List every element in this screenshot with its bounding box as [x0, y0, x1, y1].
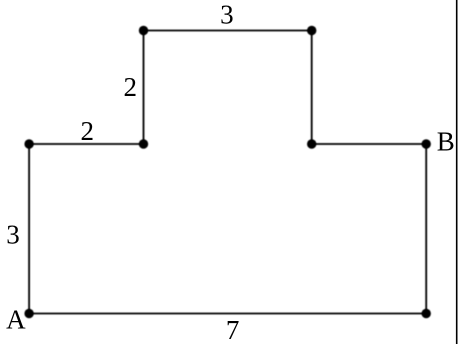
svg-text:B: B	[437, 126, 455, 156]
svg-text:A: A	[6, 305, 26, 335]
side shoulder-left horizontal (length 2)	[29, 143, 143, 145]
side upper-left vertical (length 2)	[143, 31, 145, 145]
svg-text:2: 2	[80, 116, 94, 146]
vertex dot middle-right	[307, 139, 316, 148]
svg-text:7: 7	[226, 315, 240, 344]
side top (length 3)	[144, 30, 312, 32]
vertex dot bottom-right	[422, 309, 431, 318]
svg-text:3: 3	[220, 0, 234, 30]
svg-text:3: 3	[6, 220, 20, 250]
vertex dot top-left	[139, 26, 148, 35]
vertex dot B	[422, 139, 431, 148]
side left vertical (length 3)	[28, 144, 30, 314]
side upper-right vertical	[311, 31, 313, 145]
side shoulder-right horizontal	[312, 143, 427, 145]
side bottom (length 7)	[29, 313, 426, 315]
vertex dot middle-left	[139, 139, 148, 148]
svg-text:2: 2	[123, 72, 137, 102]
vertex dot top-right	[307, 26, 316, 35]
side right vertical	[425, 144, 427, 314]
vertex dot A	[24, 309, 33, 318]
vertex dot left shoulder	[24, 139, 33, 148]
right image border line	[456, 0, 458, 344]
